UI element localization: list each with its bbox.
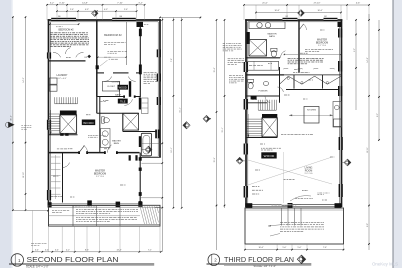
svg-text:5'-2": 5'-2" bbox=[354, 48, 356, 52]
closet wall chunk bbox=[129, 81, 131, 97]
deck hatch bottom bbox=[49, 223, 161, 225]
hall door A bbox=[76, 52, 84, 57]
third floor plan title bubble bbox=[208, 254, 220, 266]
svg-text:THIRD FLOOR PLAN: THIRD FLOOR PLAN bbox=[224, 255, 294, 264]
stair bottom wall third floor bbox=[246, 137, 277, 139]
right page border line bbox=[392, 0, 394, 268]
svg-text:5'-2" x 6'-0": 5'-2" x 6'-0" bbox=[57, 78, 66, 80]
deck note arrows bbox=[268, 225, 280, 226]
third floor plan outer walls bbox=[245, 19, 247, 207]
left bottom dimension line bbox=[13, 210, 48, 212]
left plan top wall window W1 bbox=[51, 18, 76, 21]
dim connector y208 bbox=[155, 207, 162, 209]
svg-text:7'-10": 7'-10" bbox=[117, 2, 123, 4]
left page margin strip bbox=[0, 0, 13, 268]
linen closet X bbox=[123, 113, 139, 130]
left margin notes third floor B bbox=[228, 58, 231, 60]
left plan right wall window W5 bbox=[157, 49, 161, 57]
slider leader curve bbox=[290, 196, 311, 201]
bath jamb marks bbox=[123, 95, 125, 97]
deck divider bbox=[72, 205, 74, 226]
walk-in closet wall bbox=[62, 153, 64, 203]
cabinets text bbox=[57, 148, 59, 150]
second floor bottom sliders bbox=[49, 203, 142, 205]
svg-text:W.I.C.: W.I.C. bbox=[53, 176, 59, 178]
svg-text:14'-3": 14'-3" bbox=[23, 77, 25, 82]
svg-text:3'-2": 3'-2" bbox=[50, 2, 55, 4]
vaulted ceiling diagonals bbox=[248, 157, 332, 185]
svg-text:OneKey MLS: OneKey MLS bbox=[372, 262, 398, 267]
svg-text:13'-3": 13'-3" bbox=[116, 249, 121, 251]
svg-text:ROOM: ROOM bbox=[305, 169, 312, 172]
flat clg text right bbox=[294, 69, 297, 71]
bath bedroom divider wall bbox=[298, 20, 300, 73]
svg-text:BEDROOM #2: BEDROOM #2 bbox=[58, 29, 74, 31]
kitchen island bbox=[304, 107, 319, 124]
master bath left wall bbox=[99, 96, 101, 153]
svg-text:LAUNDRY: LAUNDRY bbox=[57, 74, 68, 77]
svg-text:WOOD: WOOD bbox=[83, 121, 94, 125]
svg-text:9'-2": 9'-2" bbox=[377, 113, 379, 117]
bottom dimension line third floor bbox=[245, 249, 344, 251]
laundry washer dryer bbox=[50, 78, 58, 84]
closet front line bbox=[126, 22, 128, 65]
bottom dimension line left plan bbox=[32, 251, 160, 253]
svg-text:4'-2": 4'-2" bbox=[66, 249, 70, 251]
top dimension line 1 bbox=[47, 4, 145, 6]
left margin note text bbox=[21, 125, 23, 127]
left margin notes third floor C bbox=[229, 75, 232, 77]
bedroom 2 closet wall bbox=[49, 60, 86, 62]
master bath shower bbox=[249, 40, 267, 57]
svg-text:7'-1": 7'-1" bbox=[148, 249, 152, 251]
third floor top dimension line bbox=[244, 4, 369, 6]
living room leader dashes bbox=[252, 186, 255, 188]
svg-text:7'-2": 7'-2" bbox=[171, 58, 173, 62]
master bedroom door leaf bbox=[79, 145, 85, 152]
left plan top-right corner column bbox=[137, 22, 144, 28]
stair bottom arrow marks bbox=[60, 134, 63, 136]
right plan right wall window W12 bbox=[338, 61, 342, 72]
third floor door arcs bbox=[281, 51, 286, 58]
deck slider door third floor bbox=[282, 204, 302, 206]
right-of-plan dimension line C bbox=[181, 18, 183, 208]
deck note left cell bbox=[52, 210, 54, 212]
powder sink bbox=[263, 82, 268, 86]
third floor stair direction line bbox=[247, 114, 249, 137]
right plan right wall window W13 bbox=[339, 137, 343, 150]
living room floor note bbox=[261, 147, 262, 149]
right plan top wall window W9 bbox=[283, 18, 298, 21]
top dimension line 2 bbox=[57, 10, 137, 12]
right dimension lines third floor bbox=[355, 20, 357, 110]
right plan left wall window W15c bbox=[244, 99, 248, 110]
hall wall bbox=[97, 72, 104, 74]
dim connector y198 bbox=[141, 197, 162, 199]
svg-text:4'-6": 4'-6" bbox=[356, 3, 361, 5]
tub nook cap wall bbox=[141, 156, 161, 158]
bath/stair wall bbox=[97, 112, 139, 114]
svg-text:3'-4": 3'-4" bbox=[55, 249, 59, 251]
closet hanger zigzag bbox=[280, 76, 341, 84]
svg-text:WOOD: WOOD bbox=[119, 87, 127, 90]
wic door bbox=[63, 163, 70, 168]
svg-text:4'-3": 4'-3" bbox=[104, 9, 108, 11]
bath hall dashes bbox=[101, 101, 103, 103]
svg-text:CLOSET: CLOSET bbox=[112, 82, 121, 84]
kitchen leader line bbox=[289, 114, 333, 116]
master bedroom wall bbox=[49, 152, 80, 154]
svg-text:SCALE: 1/4" = 1'-0": SCALE: 1/4" = 1'-0" bbox=[26, 264, 49, 268]
third floor upper closet wall bbox=[246, 102, 267, 104]
svg-text:14'-2": 14'-2" bbox=[367, 57, 369, 62]
left plan left wall window W3 bbox=[47, 120, 51, 130]
shear wall tag diamond B bbox=[203, 115, 210, 122]
closet door B bbox=[104, 76, 111, 81]
svg-text:2'-6": 2'-6" bbox=[70, 9, 74, 11]
closet door C bbox=[128, 76, 135, 81]
bedroom2 door bbox=[53, 52, 61, 57]
svg-text:16'-11": 16'-11" bbox=[367, 147, 369, 153]
misc note under stairs bbox=[88, 135, 90, 137]
dim connector y163 bbox=[142, 162, 163, 164]
master bath bottom wall bbox=[246, 57, 280, 59]
left plan top wall window W2 bbox=[112, 18, 136, 21]
right strip shelving bbox=[142, 98, 149, 114]
svg-text:16'-6": 16'-6" bbox=[258, 247, 263, 249]
kitchen stove bbox=[334, 119, 342, 127]
stair upper run treads bbox=[54, 97, 56, 103]
bedroom right window A bbox=[139, 157, 142, 161]
third floor stair left treads bbox=[246, 118, 262, 120]
master bath tub bbox=[141, 133, 151, 156]
door jamb blobs master bedroom wall bbox=[78, 151, 80, 154]
master bedroom door bbox=[299, 24, 304, 30]
svg-text:3'-2": 3'-2" bbox=[138, 2, 143, 4]
svg-text:15'-9": 15'-9" bbox=[214, 157, 216, 162]
elevator header bbox=[60, 111, 77, 115]
right page margin strip bbox=[394, 0, 402, 268]
closet notes right bbox=[144, 71, 147, 73]
svg-text:15'-4": 15'-4" bbox=[214, 67, 216, 72]
svg-text:5'-0": 5'-0" bbox=[283, 247, 287, 249]
stair left run treads bbox=[49, 113, 60, 115]
left margin notes third floor A bbox=[223, 43, 225, 45]
top right dimension line bbox=[160, 17, 200, 19]
fixture tag diamond right wall bbox=[344, 159, 351, 166]
master bath wall bbox=[123, 131, 157, 133]
bottom extension drops third floor bbox=[244, 244, 246, 250]
svg-text:10'-1": 10'-1" bbox=[171, 147, 173, 152]
shear tag diamond left of third floor bbox=[236, 157, 243, 164]
svg-text:31'-1": 31'-1" bbox=[11, 115, 13, 121]
base molding note bbox=[108, 51, 110, 53]
stair bottom wall bbox=[49, 134, 78, 136]
svg-text:SCALE: 1/4" = 1'-0": SCALE: 1/4" = 1'-0" bbox=[254, 264, 277, 268]
second floor plan outer walls bbox=[48, 19, 50, 205]
svg-text:21'-0": 21'-0" bbox=[262, 3, 268, 5]
svg-text:9'-1" CLG: 9'-1" CLG bbox=[96, 176, 104, 178]
master bedroom right wall bbox=[139, 153, 141, 206]
master bath door arc bbox=[108, 145, 112, 153]
stair direction line bbox=[50, 110, 52, 134]
svg-text:BEDROOM: BEDROOM bbox=[316, 41, 328, 44]
right-of-plan dimension line A bbox=[162, 17, 208, 19]
mid room extension line bbox=[283, 152, 285, 203]
master bath wall chunk bbox=[247, 32, 250, 44]
svg-text:31'-1": 31'-1" bbox=[222, 127, 224, 132]
bath wall dark segment upper bbox=[139, 97, 141, 109]
deck notes text bbox=[76, 209, 78, 211]
svg-text:BATH: BATH bbox=[115, 93, 121, 96]
third floor top dimension line 2 bbox=[256, 12, 341, 14]
bath top wall bbox=[97, 96, 124, 98]
master bath vanity counter bbox=[249, 22, 285, 29]
third floor stair upper treads bbox=[257, 100, 259, 110]
left dimension line outer bbox=[12, 17, 14, 211]
bedroom dim line 21-10 bbox=[284, 53, 341, 55]
second floor plan title bubble bbox=[11, 254, 23, 266]
svg-text:3'-4": 3'-4" bbox=[35, 249, 39, 251]
svg-text:WOOD: WOOD bbox=[264, 154, 275, 158]
svg-text:SECOND FLOOR PLAN: SECOND FLOOR PLAN bbox=[27, 255, 119, 264]
left plan left wall window W3b bbox=[47, 52, 51, 58]
interior leader dashes left plan bbox=[66, 57, 68, 59]
svg-text:BEDROOM #2: BEDROOM #2 bbox=[104, 34, 122, 37]
left dimension lines third floor bbox=[216, 20, 218, 250]
bath entry door arc bbox=[124, 99, 132, 105]
bedroom right window B bbox=[139, 192, 142, 196]
svg-text:9'-1" CLG: 9'-1" CLG bbox=[318, 45, 326, 47]
wood deck label third floor bbox=[261, 152, 276, 158]
third floor deck notes bbox=[280, 222, 283, 224]
right-of-plan dimension line B bbox=[172, 18, 174, 208]
closet label box bbox=[118, 85, 129, 90]
right plan left wall window W16 bbox=[244, 186, 248, 198]
left plan left wall window W4 bbox=[47, 190, 51, 200]
shear wall tag diamond A bbox=[183, 122, 190, 129]
section marker left bbox=[8, 122, 14, 128]
svg-text:14'-8": 14'-8" bbox=[82, 2, 88, 4]
powder toilet bbox=[248, 79, 254, 82]
third floor deck bbox=[245, 208, 344, 244]
master bath vanity left plan bbox=[101, 129, 110, 148]
wall note bottom left bbox=[31, 243, 34, 245]
slider note right bbox=[317, 192, 318, 194]
fixture tag diamond in master bath bbox=[145, 146, 152, 153]
svg-text:POWDER: POWDER bbox=[259, 90, 269, 92]
flat clg closet box bbox=[247, 61, 279, 70]
kitchen counter right bbox=[333, 102, 342, 128]
svg-text:BATH: BATH bbox=[269, 35, 275, 38]
right plan right wall window W11 bbox=[338, 29, 342, 38]
right plan right wall window W14 bbox=[339, 184, 343, 197]
right plan left wall window W15 bbox=[244, 144, 248, 155]
wood deck label left plan bbox=[82, 120, 95, 126]
bedroom note paragraph bbox=[288, 57, 291, 59]
kp door bbox=[66, 48, 71, 54]
third floor elevator header bbox=[262, 114, 277, 118]
bath wall dark segment lower bbox=[139, 136, 141, 147]
corridor wall third floor bbox=[246, 74, 284, 76]
right plan right wall window W17 bbox=[338, 86, 342, 96]
interior wall between bedrooms bbox=[96, 20, 98, 97]
svg-text:4'-3": 4'-3" bbox=[85, 9, 89, 11]
master bath toilet left plan bbox=[102, 117, 105, 123]
dim connector y143 bbox=[142, 142, 162, 144]
svg-text:10'-8": 10'-8" bbox=[274, 10, 279, 12]
left dimension line inner bbox=[25, 17, 27, 211]
corner note top right bbox=[138, 24, 139, 26]
svg-text:3'-10": 3'-10" bbox=[59, 2, 65, 4]
slider microtext second floor bbox=[72, 206, 74, 208]
second floor title underline bbox=[9, 263, 154, 265]
left plan right wall window W6 bbox=[157, 97, 161, 105]
svg-text:10'-6": 10'-6" bbox=[317, 10, 322, 12]
svg-text:9'-1" CLG: 9'-1" CLG bbox=[305, 173, 313, 175]
interior dim line below top wall bbox=[50, 23, 79, 25]
closet bottom wall bbox=[286, 89, 342, 91]
svg-text:BATH: BATH bbox=[114, 142, 120, 145]
bottom extension drops left plan bbox=[48, 226, 50, 252]
deck hatch right end left plan bbox=[140, 206, 145, 224]
right plan top wall window W10 bbox=[324, 18, 338, 21]
window tag diamond third floor bbox=[298, 10, 305, 17]
third floor top extension drops bbox=[243, 5, 245, 20]
elevator shaft X bbox=[60, 115, 77, 133]
hall dim line bbox=[98, 56, 126, 58]
svg-text:31'-1": 31'-1" bbox=[179, 107, 181, 112]
powder room walls bbox=[279, 67, 281, 103]
svg-text:2'-6": 2'-6" bbox=[124, 9, 128, 11]
title diamond marker bbox=[297, 255, 305, 263]
right plan left wall window W15b bbox=[244, 62, 248, 72]
spec paragraph text bbox=[51, 32, 54, 34]
deck stair lines bbox=[281, 208, 283, 226]
svg-text:CLOSET: CLOSET bbox=[107, 86, 116, 88]
svg-text:9'-0": 9'-0" bbox=[367, 223, 369, 227]
third floor title underline bbox=[207, 263, 312, 265]
svg-text:TILE: TILE bbox=[120, 100, 126, 104]
second floor deck below bbox=[49, 205, 161, 226]
x140 wall blob bbox=[139, 65, 142, 75]
deck mid line bbox=[49, 215, 141, 217]
slider jamb blobs third floor bbox=[245, 203, 252, 208]
third floor bottom sliders bbox=[246, 204, 342, 206]
door jamb marks below wall bbox=[129, 155, 131, 160]
left plan right wall window W7 bbox=[155, 130, 159, 139]
right plan corner column bbox=[338, 22, 342, 28]
base molding note row bbox=[281, 133, 283, 135]
svg-text:7'-6": 7'-6" bbox=[323, 247, 327, 249]
tile label box bbox=[118, 99, 128, 104]
master bath toilet bbox=[271, 48, 277, 51]
svg-text:5'-0": 5'-0" bbox=[298, 247, 302, 249]
slider jamb blobs second floor bbox=[48, 202, 52, 207]
hall wall lower bbox=[96, 97, 98, 114]
window tag diamond top bbox=[92, 10, 98, 16]
right closet window W5b bbox=[157, 74, 161, 82]
svg-text:16'-10": 16'-10" bbox=[23, 172, 25, 178]
closet divider stubs bbox=[293, 75, 295, 89]
third floor elevator X bbox=[262, 118, 277, 137]
closet right wall short bbox=[119, 82, 121, 97]
svg-text:KITCHEN: KITCHEN bbox=[307, 109, 316, 111]
closet box bbox=[102, 82, 119, 92]
slider microtext third floor bbox=[272, 204, 274, 206]
closet rod marks bbox=[51, 156, 61, 158]
interior leader dashes third floor bbox=[252, 99, 254, 101]
svg-text:27'-10": 27'-10" bbox=[314, 3, 321, 5]
closet right wall bbox=[139, 26, 141, 97]
svg-text:BEDROOM: BEDROOM bbox=[94, 172, 106, 175]
top dimension extension lines bbox=[46, 5, 48, 20]
